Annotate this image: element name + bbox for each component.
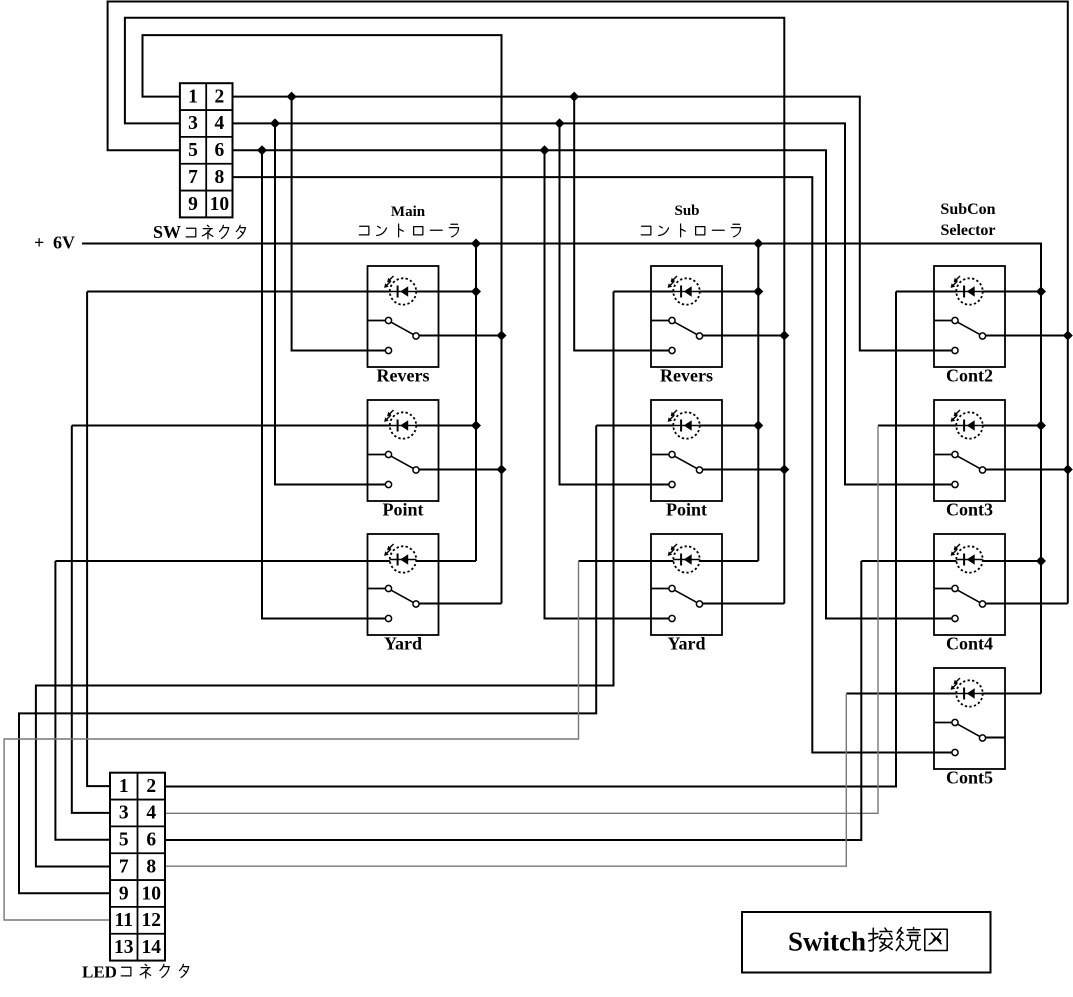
svg-text:1: 1 [188, 86, 198, 107]
svg-text:SubCon: SubCon [940, 201, 995, 218]
svg-text:Revers: Revers [660, 366, 713, 386]
svg-text:Point: Point [382, 500, 423, 520]
svg-text:Revers: Revers [377, 366, 430, 386]
svg-text:10: 10 [210, 194, 230, 215]
svg-text:Point: Point [666, 500, 707, 520]
svg-text:3: 3 [188, 113, 198, 134]
svg-text:9: 9 [119, 883, 129, 904]
svg-text:Cont5: Cont5 [946, 768, 993, 788]
svg-text:10: 10 [142, 883, 162, 904]
svg-text:4: 4 [146, 803, 156, 824]
svg-text:7: 7 [188, 167, 198, 188]
svg-text:Selector: Selector [940, 222, 995, 239]
svg-text:Yard: Yard [384, 634, 422, 654]
svg-text:2: 2 [214, 86, 224, 107]
svg-text:3: 3 [119, 803, 129, 824]
svg-text:2: 2 [146, 776, 156, 797]
svg-text:Yard: Yard [667, 634, 705, 654]
svg-text:Cont3: Cont3 [946, 500, 993, 520]
svg-text:6: 6 [214, 140, 224, 161]
svg-text:8: 8 [146, 856, 156, 877]
svg-text:SW: SW [153, 222, 181, 242]
svg-text:Switch: Switch [788, 927, 866, 957]
svg-text:14: 14 [142, 937, 162, 958]
svg-text:Cont4: Cont4 [946, 634, 993, 654]
svg-text:6V: 6V [53, 233, 75, 253]
svg-text:9: 9 [188, 194, 198, 215]
svg-text:LED: LED [82, 963, 117, 982]
svg-text:Sub: Sub [674, 203, 699, 219]
svg-text:11: 11 [115, 910, 133, 931]
svg-text:8: 8 [214, 167, 224, 188]
svg-text:4: 4 [214, 113, 224, 134]
svg-text:Cont2: Cont2 [946, 366, 993, 386]
svg-text:6: 6 [146, 830, 156, 851]
svg-text:Main: Main [391, 204, 426, 220]
svg-text:5: 5 [119, 830, 129, 851]
svg-text:7: 7 [119, 856, 129, 877]
svg-text:+: + [34, 233, 44, 253]
svg-text:12: 12 [142, 910, 162, 931]
svg-text:1: 1 [119, 776, 129, 797]
svg-text:13: 13 [114, 937, 134, 958]
svg-text:5: 5 [188, 140, 198, 161]
